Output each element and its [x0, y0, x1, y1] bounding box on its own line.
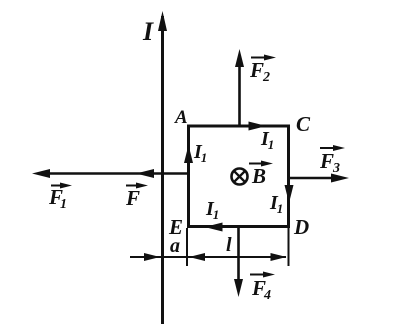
label I [142, 17, 154, 46]
current arrow I1 on top edge (right) [249, 122, 275, 153]
current arrow I1 on left edge (up) [184, 141, 207, 165]
svg-text:a: a [170, 235, 180, 257]
dimension line with arrows [130, 253, 287, 261]
force arrow F3 (right from right edge) [289, 174, 349, 183]
label a [170, 235, 180, 257]
field symbol B into page [232, 169, 248, 185]
svg-text:A: A [174, 107, 188, 128]
dimension extension line below D [288, 228, 290, 266]
label F2 with vector bar [249, 55, 276, 86]
loop ACDE [189, 126, 289, 227]
node E [168, 215, 183, 239]
force arrow F2 (up from top edge) [235, 49, 244, 126]
current arrow I1 on bottom edge (left) [205, 198, 223, 232]
svg-text:l: l [226, 234, 232, 256]
svg-text:B: B [251, 164, 266, 188]
svg-text:C: C [296, 112, 311, 136]
svg-text:F: F [125, 186, 140, 210]
force arrow F1 / F (left from left edge, two heads) [32, 169, 189, 178]
label l [226, 234, 232, 256]
svg-text:I: I [142, 17, 154, 46]
force arrow F4 (down from bottom edge) [234, 227, 243, 297]
label B with vector bar [249, 161, 273, 189]
label F4 with vector bar [250, 272, 275, 304]
wire with current I [158, 11, 167, 324]
node D [293, 215, 309, 239]
label F3 with vector bar [319, 145, 345, 176]
node C [296, 112, 311, 136]
svg-text:D: D [293, 215, 309, 239]
current arrow I1 on right edge (down) [269, 185, 294, 216]
label F with vector bar [125, 183, 148, 211]
dimension extension line below E [186, 228, 188, 266]
label F1 with vector bar [48, 183, 72, 213]
node A [174, 107, 188, 128]
